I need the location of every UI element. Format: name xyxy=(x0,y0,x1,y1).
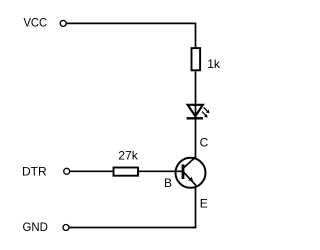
transistor Q1 emitter diagonal xyxy=(184,172,196,185)
LED cathode bar xyxy=(187,117,203,119)
terminal DTR xyxy=(64,168,70,174)
wire resistor to LED xyxy=(195,71,197,118)
LED emission arrow 1 xyxy=(204,107,210,113)
svg-text:C: C xyxy=(200,135,209,149)
svg-text:1k: 1k xyxy=(207,57,221,71)
transistor Q1 circle xyxy=(176,158,206,188)
wire resistor to base xyxy=(139,170,183,172)
svg-text:27k: 27k xyxy=(118,148,139,162)
svg-text:B: B xyxy=(164,176,172,190)
wire bottom horizontal xyxy=(69,227,196,229)
wire DTR to resistor xyxy=(70,170,112,172)
wire VCC top horizontal xyxy=(67,22,196,24)
svg-text:E: E xyxy=(200,197,208,211)
svg-text:GND: GND xyxy=(23,220,49,234)
resistor R2 27k body xyxy=(114,168,139,176)
transistor Q1 collector diagonal xyxy=(184,157,196,168)
LED emission arrow 2 xyxy=(202,112,208,118)
svg-text:DTR: DTR xyxy=(22,164,47,178)
wire top right vertical xyxy=(195,23,197,48)
wire LED to transistor collector xyxy=(195,119,197,157)
resistor R1 1k body xyxy=(192,48,201,70)
transistor Q1 base bar xyxy=(182,164,185,179)
wire emitter to bottom xyxy=(195,186,197,228)
svg-text:VCC: VCC xyxy=(24,16,48,30)
terminal VCC xyxy=(60,20,66,26)
transistor Q1 emitter arrowhead xyxy=(188,177,193,182)
terminal GND xyxy=(63,225,69,231)
LED D1 triangle xyxy=(188,105,203,116)
